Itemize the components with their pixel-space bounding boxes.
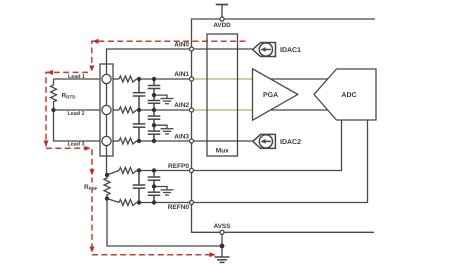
node REFN0 junction 2 — [152, 200, 156, 204]
ground at AIN1-AIN2 midpoint — [154, 95, 174, 104]
wire red dashed: to ground segment — [92, 254, 215, 256]
node AIN2 filter junction 1 — [137, 108, 141, 112]
resistor R_RTD — [51, 85, 57, 104]
capacitor differential AIN2-AIN3 — [133, 110, 146, 141]
svg-text:IDAC1: IDAC1 — [280, 47, 301, 54]
wire AIN0 from terminal block to pin — [107, 49, 253, 64]
wire terminal block bottom to RREF top node — [106, 156, 108, 175]
label R_REF — [84, 183, 98, 192]
pin REFN0 — [189, 200, 193, 204]
node cap midpoint REF — [152, 184, 156, 188]
svg-text:REFN0: REFN0 — [168, 204, 190, 211]
svg-text:AIN0: AIN0 — [174, 42, 189, 49]
pin AIN0 — [189, 47, 193, 51]
resistor AIN2 filter — [119, 107, 137, 113]
wire AVSS pin down to ground — [221, 232, 223, 257]
wire REFP0 row to ADC reference input — [137, 120, 342, 171]
arrow red current left at top — [93, 39, 99, 44]
wire lead 1 — [54, 78, 101, 80]
current source IDAC1 — [253, 43, 276, 57]
node cap midpoint AIN1-AIN2 — [152, 93, 156, 97]
node lead2 RTD junction — [51, 108, 55, 112]
node AIN2 filter junction 2 — [152, 108, 156, 112]
terminal 2 (Lead 2) — [102, 105, 111, 114]
power rail AVDD bar — [216, 4, 229, 6]
wire lead2 node down to lead3 — [54, 110, 101, 141]
arrow red current left on lead1 row — [47, 70, 53, 75]
node AIN1 filter junction 2 — [152, 77, 156, 81]
node REFP0 junction 2 — [152, 168, 156, 172]
pin AVDD — [220, 17, 224, 21]
wire PGA output pair to ADC bottom — [253, 109, 337, 111]
junction dots — [51, 77, 224, 249]
multiplexer Mux — [207, 34, 238, 156]
capacitor common-mode pair AIN2-AIN3 — [148, 110, 161, 141]
resistor AIN3 filter — [119, 138, 137, 144]
pin AIN3 — [189, 139, 193, 143]
wire RREF bottom node down and to AVSS ground node — [107, 199, 222, 247]
svg-text:AVSS: AVSS — [214, 223, 231, 230]
capacitor differential AIN1-AIN2 — [133, 79, 146, 110]
connector terminal block — [100, 64, 113, 156]
arrow red current right on lead3 row — [85, 146, 91, 151]
current source IDAC2 — [253, 134, 276, 148]
pin AIN2 — [189, 108, 193, 112]
arrow red current down into lead1 — [89, 66, 94, 72]
terminal 3 (Lead 3) — [102, 136, 111, 145]
wire red dashed: IDAC1 to AIN0 segment — [92, 41, 246, 70]
capacitor differential REFP0-REFN0 — [133, 171, 146, 203]
device outline: ADC chip boundary — [192, 19, 376, 232]
svg-text:AIN3: AIN3 — [174, 134, 189, 141]
green analog signal nets — [192, 79, 253, 110]
svg-text:Lead 3: Lead 3 — [67, 142, 84, 148]
labels — [168, 22, 231, 230]
wire RTD bottom to lead2 node — [53, 104, 55, 111]
node AIN3 filter junction 1 — [137, 139, 141, 143]
svg-text:IDAC2: IDAC2 — [280, 139, 301, 146]
capacitor common-mode pair AIN1-AIN2 — [148, 79, 161, 110]
svg-text:Lead 1: Lead 1 — [68, 74, 85, 80]
svg-text:PGA: PGA — [263, 92, 278, 99]
wire RREF top diagonal to REFP0 resistor — [107, 171, 119, 176]
arrow red current down at bottom corner — [89, 247, 94, 253]
resistor REFP0 filter — [119, 168, 137, 174]
wire REFN0 row to ADC reference input — [137, 120, 368, 203]
wire AIN2 row: block to resistor and to pin — [113, 109, 192, 111]
op-amp PGA U1 — [253, 69, 298, 120]
resistor REFN0 filter — [119, 200, 137, 206]
node RREF top — [105, 173, 109, 177]
wire PGA output pair to ADC top — [253, 78, 337, 80]
node REFP0 junction 1 — [137, 168, 141, 172]
pin REFP0 — [189, 168, 193, 172]
node AIN1 filter junction 1 — [137, 77, 141, 81]
wire red dashed: lead3 return segment — [46, 148, 92, 252]
terminal 1 (Lead 1) — [102, 74, 111, 83]
node cap midpoint AIN2-AIN3 — [152, 123, 156, 127]
wire AVDD supply stub — [221, 5, 223, 20]
node AIN3 filter junction 2 — [152, 139, 156, 143]
red dashed IDAC1 excitation current path — [46, 41, 246, 254]
svg-text:Mux: Mux — [216, 148, 229, 155]
wire AIN2 green signal path (pin to PGA) — [192, 109, 253, 111]
resistor R_REF — [104, 175, 110, 199]
dark wires — [54, 5, 368, 258]
wire AIN1 green signal path (pin to PGA) — [192, 78, 253, 80]
pin AVSS — [220, 230, 224, 234]
resistor AIN1 filter — [119, 76, 137, 82]
arrow red current down to lead3 — [43, 141, 48, 147]
svg-text:REFP0: REFP0 — [168, 163, 189, 170]
ground at AIN2-AIN3 midpoint — [154, 125, 174, 134]
arrow red current right into ground — [210, 252, 216, 257]
node REFN0 junction 1 — [137, 200, 141, 204]
wire RTD top stub — [53, 79, 55, 85]
ground symbol at AVSS — [215, 257, 230, 262]
svg-text:AVDD: AVDD — [213, 22, 231, 29]
capacitor common-mode pair REFP0-REFN0 — [148, 171, 161, 203]
wire AIN1 row: block to resistor and to pin — [113, 78, 192, 80]
wire red dashed: lead1 to RTD segment — [46, 72, 88, 146]
node RREF bottom — [105, 196, 109, 200]
svg-text:AIN1: AIN1 — [174, 71, 189, 78]
wire AIN3 row: block to resistor, pin, and to IDAC2 — [113, 140, 253, 142]
pin AIN1 — [189, 77, 193, 81]
ground at REFP0-REFN0 midpoint — [154, 187, 174, 196]
node AVSS ground junction — [220, 244, 225, 249]
svg-text:Lead 2: Lead 2 — [67, 111, 84, 117]
ADC block — [314, 69, 376, 120]
wire lead 2 — [54, 109, 101, 111]
pin circles on device boundary — [189, 17, 224, 234]
arrow red current down along reference — [89, 169, 94, 175]
svg-text:AIN2: AIN2 — [174, 102, 189, 109]
svg-text:ADC: ADC — [341, 92, 356, 99]
wire RREF bottom diagonal to REFN0 resistor — [107, 199, 119, 203]
